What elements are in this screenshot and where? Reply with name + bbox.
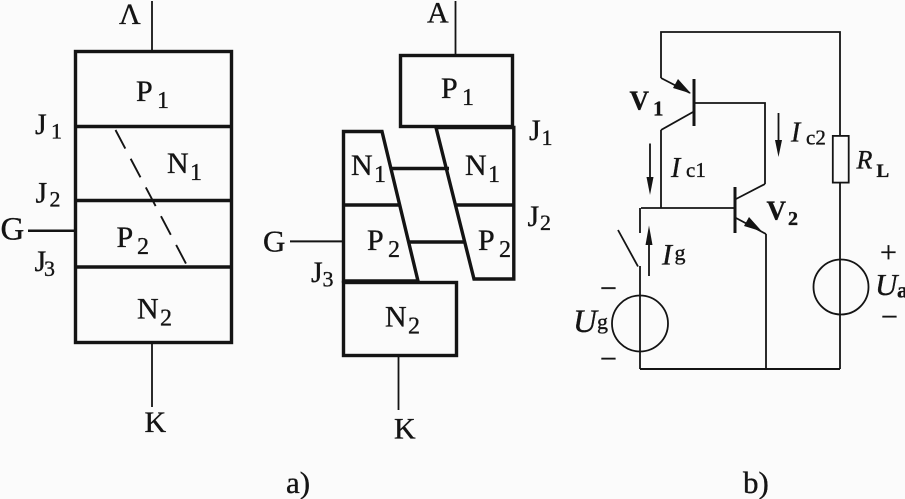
svg-text:P: P (117, 221, 134, 254)
transistor V2 emitter (736, 218, 766, 234)
wire V1 collector down (660, 130, 662, 208)
svg-text:1: 1 (462, 85, 474, 111)
svg-text:L: L (877, 161, 890, 182)
N1 bridge link (391, 167, 450, 170)
svg-text:G: G (1, 212, 25, 248)
P2 bridge link (409, 240, 467, 243)
transistor V1 emitter (661, 78, 690, 93)
current arrow Ig (up) (648, 242, 650, 276)
svg-text:3: 3 (44, 256, 55, 281)
svg-text:3: 3 (323, 267, 334, 292)
transistor V1 emitter arrowhead (673, 79, 691, 94)
svg-text:K: K (394, 413, 416, 446)
anode lead wire (left stack) (151, 1, 153, 50)
transistor V2 collector (736, 184, 765, 199)
top wire (661, 32, 840, 135)
wire switch to bottom through source (639, 266, 641, 369)
junction J1 line (75, 125, 232, 128)
left half column (N1/P2 left) (344, 132, 419, 282)
svg-text:N: N (167, 147, 189, 180)
svg-text:c1: c1 (686, 158, 706, 182)
svg-text:G: G (263, 224, 285, 259)
svg-text:P: P (136, 75, 153, 108)
svg-text:2: 2 (50, 187, 61, 212)
svg-text:I: I (790, 118, 802, 149)
svg-text:2: 2 (499, 237, 511, 263)
anode lead wire (split stack) (455, 1, 457, 55)
transistor V2 base bar (734, 187, 737, 233)
layer stack outline box (76, 52, 232, 343)
cathode lead wire (split stack) (398, 356, 400, 410)
right half column (N1/P2 right) (436, 128, 514, 280)
svg-text:1: 1 (190, 160, 202, 186)
svg-text:N: N (385, 301, 407, 334)
svg-text:V: V (630, 86, 650, 116)
svg-text:−: − (600, 272, 617, 305)
svg-text:a): a) (286, 465, 310, 499)
svg-text:g: g (597, 309, 608, 334)
current arrow Ic1 (649, 144, 651, 181)
svg-text:1: 1 (653, 97, 664, 121)
svg-text:I: I (670, 153, 682, 184)
svg-text:P: P (367, 224, 384, 257)
layer N2 box (344, 283, 457, 356)
svg-text:A: A (427, 0, 449, 30)
voltage source Ua circle (814, 260, 869, 315)
svg-text:N: N (137, 293, 159, 326)
dashed split line (116, 130, 188, 267)
svg-text:1: 1 (374, 162, 386, 188)
svg-text:V: V (767, 196, 787, 226)
load resistor RL (833, 136, 849, 183)
wire V2 emitter down (765, 234, 767, 369)
svg-text:2: 2 (388, 237, 400, 263)
transistor V1 base bar (693, 79, 696, 126)
svg-text:R: R (856, 146, 873, 175)
svg-text:J: J (36, 177, 48, 210)
transistor V2 base wire (641, 207, 735, 209)
svg-text:Λ: Λ (119, 0, 141, 31)
junction line (left half N1/P2) (342, 203, 400, 206)
svg-text:2: 2 (540, 210, 551, 235)
transistor V2 emitter arrowhead (744, 217, 762, 232)
layer P1 box (401, 56, 513, 127)
transistor V1 collector (661, 112, 693, 130)
gate lead wire (split stack) (290, 240, 343, 242)
svg-text:−: − (600, 343, 617, 376)
svg-text:1: 1 (157, 88, 169, 114)
svg-text:J: J (529, 114, 541, 147)
svg-text:a: a (897, 278, 905, 303)
wire V1 base to V2 collector (695, 103, 765, 184)
svg-text:P: P (441, 72, 458, 105)
svg-text:−: − (881, 301, 898, 334)
svg-text:P: P (478, 224, 495, 257)
svg-text:g: g (675, 240, 686, 265)
svg-text:J: J (311, 256, 323, 289)
voltage source Ug circle (612, 296, 668, 352)
svg-text:J: J (528, 200, 540, 233)
svg-text:J: J (35, 108, 47, 141)
current arrow Ic2 (778, 113, 780, 142)
switch blade (618, 230, 638, 267)
svg-text:2: 2 (788, 208, 798, 230)
svg-text:+: + (880, 236, 897, 269)
svg-text:1: 1 (542, 125, 553, 150)
junction J3 line (75, 265, 232, 268)
svg-text:N: N (351, 149, 373, 182)
svg-text:K: K (145, 406, 167, 439)
svg-text:N: N (465, 149, 487, 182)
gate lead wire (left stack) (28, 229, 75, 232)
junction J2 line (right half) (456, 203, 514, 206)
svg-text:c2: c2 (806, 126, 826, 150)
svg-text:2: 2 (137, 234, 149, 260)
svg-text:2: 2 (160, 306, 172, 332)
junction J2 line (75, 199, 232, 202)
svg-text:2: 2 (408, 314, 420, 340)
svg-text:b): b) (743, 465, 769, 499)
bottom wire (640, 368, 840, 370)
svg-text:U: U (573, 304, 599, 340)
wire RL to Ua (839, 183, 841, 369)
svg-text:1: 1 (488, 162, 500, 188)
wire gate branch down (639, 208, 641, 233)
svg-text:1: 1 (51, 119, 62, 144)
cathode lead wire (left stack) (151, 343, 153, 407)
